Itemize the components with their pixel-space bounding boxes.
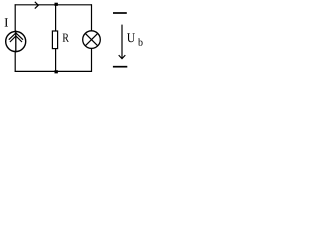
label Ub (U) bbox=[127, 33, 135, 42]
wire: middle branch (resistor) bbox=[55, 4, 57, 72]
wire: bottom return bbox=[15, 70, 92, 72]
Ub annotation: bottom potential bar bbox=[113, 66, 127, 68]
lamp circle bbox=[83, 31, 101, 49]
lamp X stroke 1 bbox=[85, 33, 97, 45]
current direction arrow on top wire bbox=[35, 2, 39, 9]
background bbox=[0, 0, 146, 76]
Ub annotation: top potential bar bbox=[113, 12, 127, 14]
label Ub (subscript b) bbox=[138, 38, 143, 46]
current source I circle bbox=[6, 32, 26, 52]
resistor R body bbox=[52, 31, 57, 49]
wire: right branch (lamp) bbox=[91, 4, 93, 72]
Ub voltage arrowhead bbox=[119, 55, 126, 59]
label R bbox=[63, 34, 69, 42]
junction dot top bbox=[55, 3, 58, 6]
label I bbox=[5, 18, 8, 26]
wire: left branch bbox=[14, 4, 16, 72]
current source arrowhead chevron 1 bbox=[9, 33, 23, 40]
junction dot bottom bbox=[55, 70, 58, 73]
Ub voltage arrow shaft bbox=[121, 25, 123, 59]
lamp X stroke 2 bbox=[85, 33, 97, 45]
current source arrowhead chevron 2 bbox=[10, 36, 22, 42]
wire: top (node between source, R and lamp) bbox=[15, 4, 92, 6]
current source arrow shaft (wire through circle) bbox=[15, 31, 17, 53]
